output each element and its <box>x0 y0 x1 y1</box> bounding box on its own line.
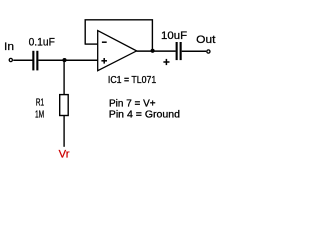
wire C1 to op-amp + input <box>38 59 97 61</box>
node Out terminal <box>207 50 210 53</box>
svg-text:R1: R1 <box>36 97 44 108</box>
svg-text:Pin 7 = V+: Pin 7 = V+ <box>109 98 156 109</box>
wire junction down to R1 <box>63 60 65 95</box>
svg-text:Vr: Vr <box>59 149 70 161</box>
svg-text:IC1 = TL071: IC1 = TL071 <box>108 75 157 86</box>
svg-text:In: In <box>4 41 14 53</box>
junction node A dot <box>62 58 66 62</box>
svg-text:1M: 1M <box>35 109 44 120</box>
wire op-amp output to C2 <box>137 50 176 52</box>
capacitor C2 10uF <box>176 42 182 60</box>
op-amp U1 triangle <box>98 31 137 71</box>
capacitor C1 0.1uF <box>32 51 38 71</box>
wire input terminal to C1 <box>13 59 32 61</box>
node In terminal <box>9 58 12 61</box>
resistor R1 <box>60 95 68 116</box>
wire C2 to output terminal <box>182 50 207 52</box>
wire R1 to Vr <box>63 116 65 147</box>
svg-text:0.1uF: 0.1uF <box>29 37 56 49</box>
op-amp non-inverting input + sign <box>101 58 107 64</box>
svg-text:Pin 4 = Ground: Pin 4 = Ground <box>109 109 180 120</box>
polarity + sign of C2 <box>163 59 169 65</box>
wire feedback loop <box>85 20 152 51</box>
svg-text:10uF: 10uF <box>161 30 187 42</box>
wire inverting input <box>85 43 98 45</box>
op-amp inverting input - sign <box>102 41 107 43</box>
junction node B dot <box>151 49 155 53</box>
svg-text:Out: Out <box>196 34 215 46</box>
